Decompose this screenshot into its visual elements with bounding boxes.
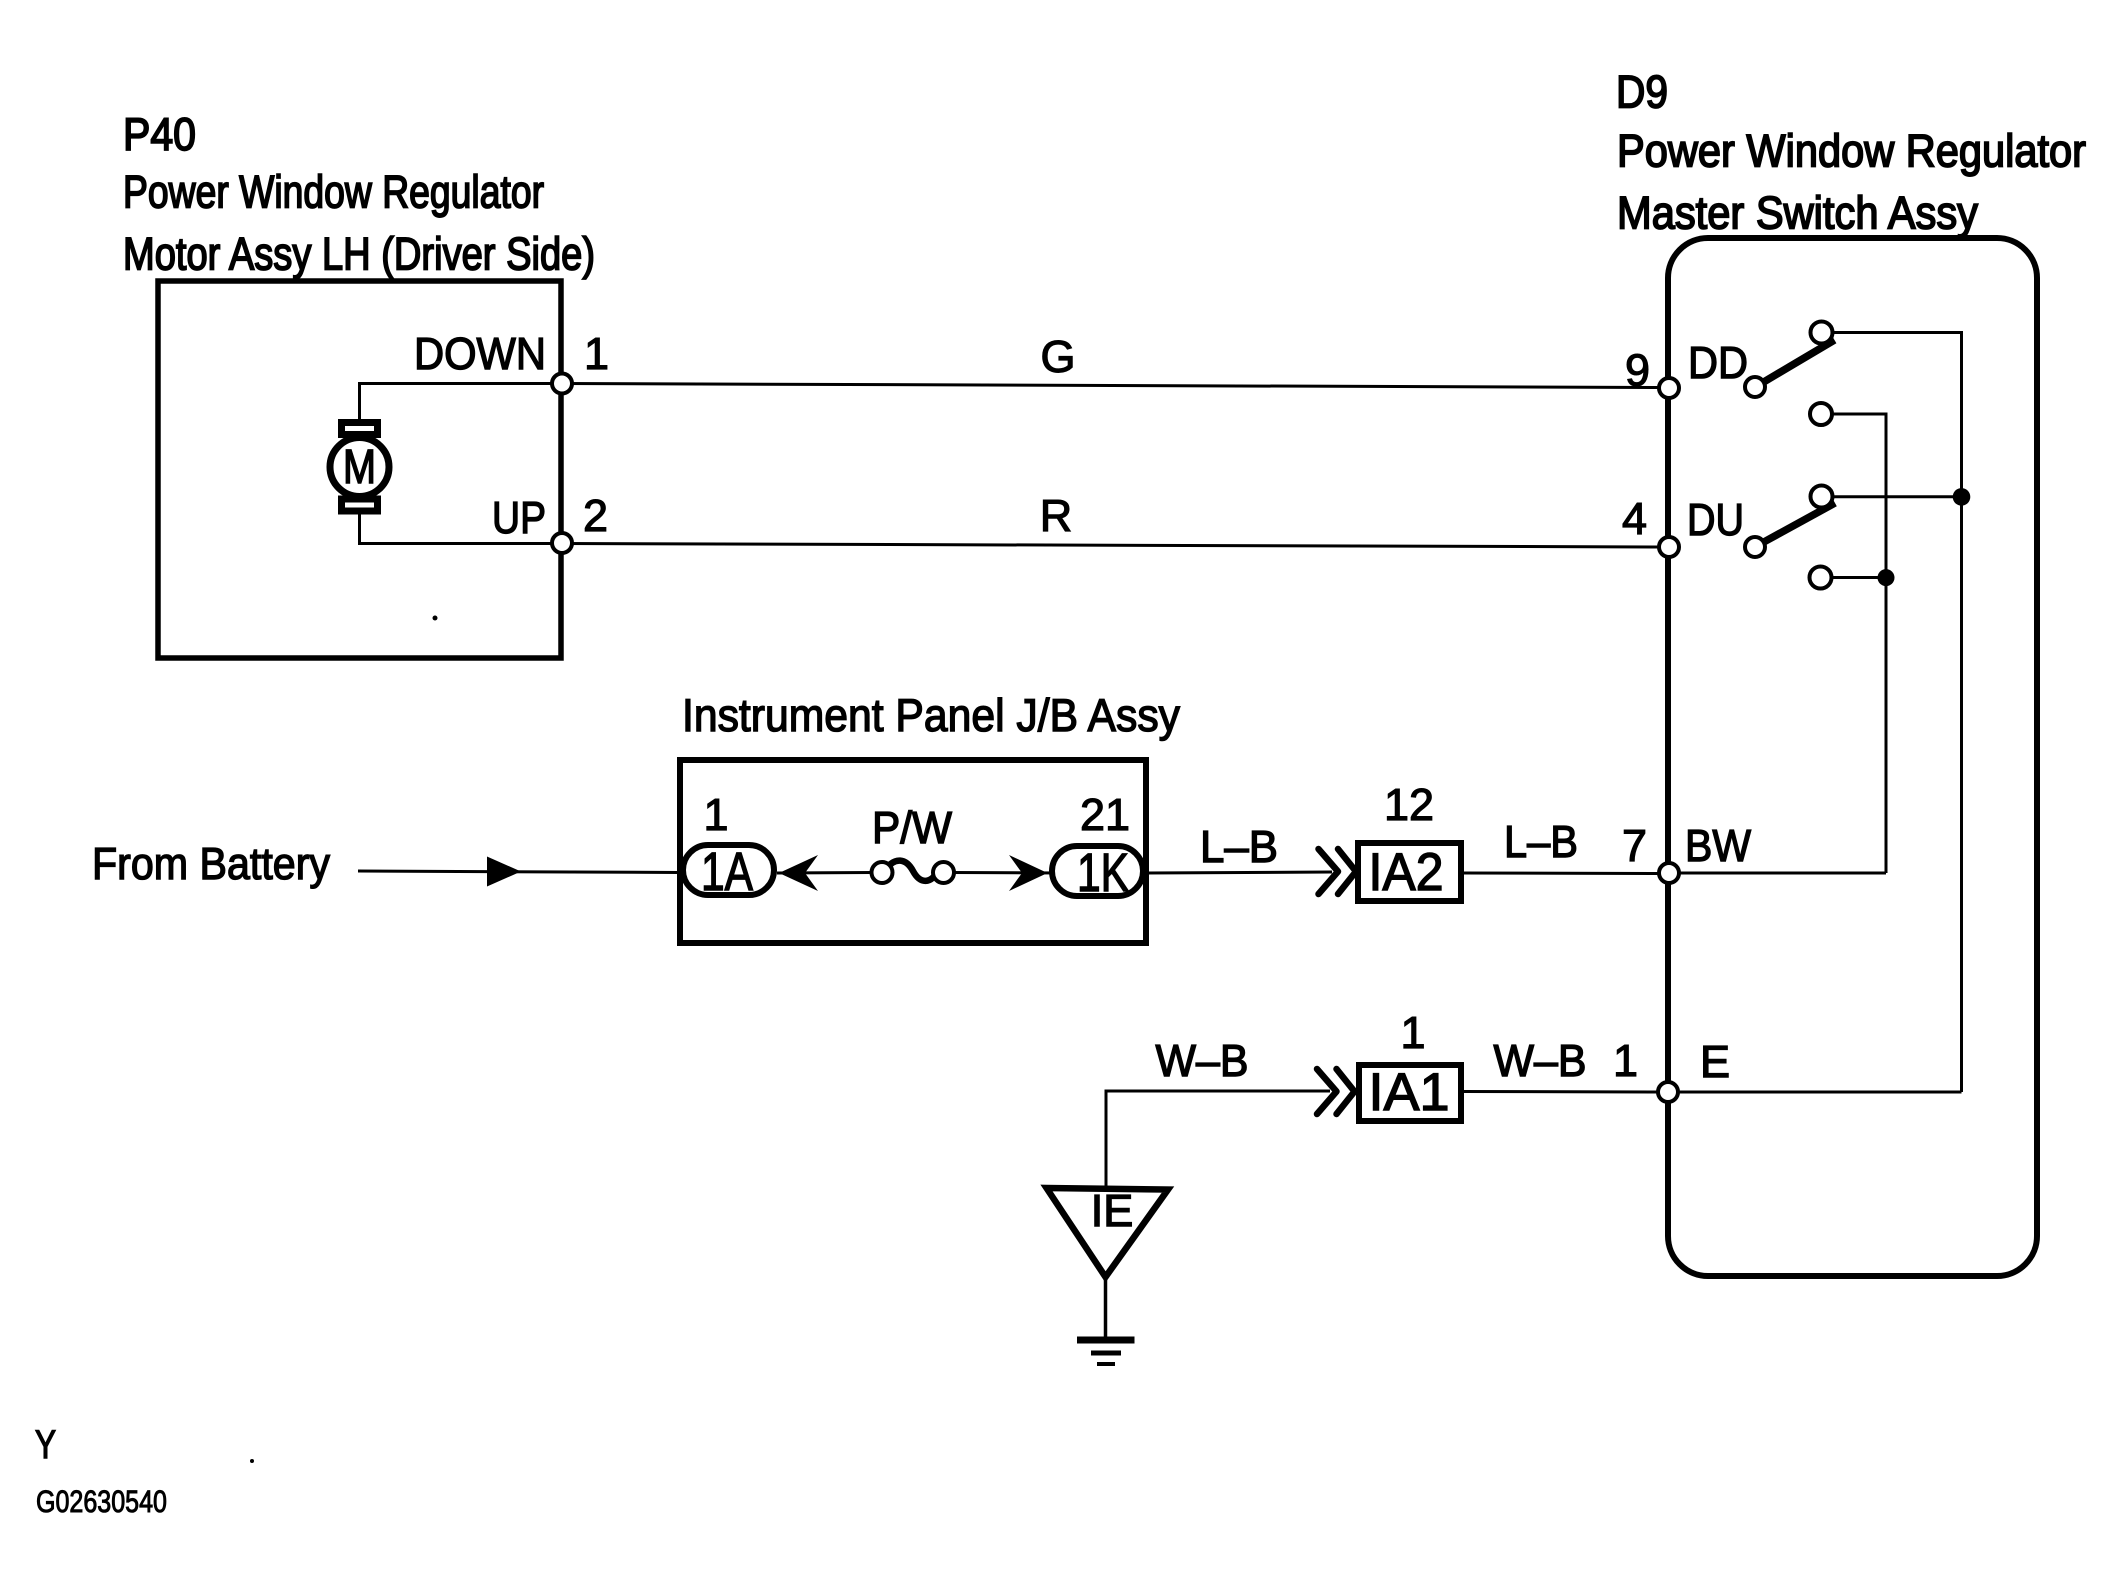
switch DD common contact (1745, 377, 1765, 397)
pin 2 connector node (552, 533, 572, 553)
switch DU common contact (1745, 537, 1765, 557)
svg-text:R: R (1040, 490, 1073, 541)
svg-text:G: G (1040, 331, 1075, 382)
pin 9 connector node (1659, 378, 1679, 398)
wire lower contact to bus B junction (1829, 576, 1886, 579)
wire E inside box (1668, 1091, 1962, 1094)
ground bars (1077, 1337, 1135, 1344)
switch DD arm (1762, 340, 1835, 383)
switch DU throw contact (1811, 486, 1833, 508)
pin 7 connector node (1659, 863, 1679, 883)
title P40 Power Window Regulator Motor Assy LH (Driver Side) (123, 108, 595, 280)
ground point IE triangle (1047, 1188, 1169, 1277)
svg-text:IE: IE (1091, 1185, 1134, 1236)
svg-text:7: 7 (1622, 820, 1647, 871)
svg-text:Instrument Panel J/B Assy: Instrument Panel J/B Assy (682, 689, 1180, 741)
connector IA1 (1359, 1065, 1461, 1121)
svg-text:1: 1 (1400, 1007, 1425, 1058)
wire DOWN from motor to pin 1 (360, 384, 563, 426)
fuse symbol (886, 861, 939, 881)
svg-text:IA1: IA1 (1369, 1063, 1450, 1122)
motor assy box P40 (158, 281, 561, 658)
svg-text:E: E (1700, 1036, 1730, 1087)
svg-text:P/W: P/W (872, 802, 952, 853)
wire R (562, 544, 1668, 548)
svg-text:W–B: W–B (1156, 1035, 1249, 1086)
connector 1A (683, 845, 774, 895)
svg-text:Y: Y (35, 1423, 56, 1467)
svg-text:1K: 1K (1077, 843, 1129, 903)
svg-text:12: 12 (1384, 779, 1434, 830)
wire from DD top contact to vertical bus A (1830, 333, 1962, 1093)
junction block box (680, 760, 1146, 943)
svg-text:1: 1 (703, 789, 728, 840)
svg-text:W–B: W–B (1494, 1035, 1587, 1086)
wire from mid contact to vertical bus B (1830, 414, 1886, 873)
pin 1 connector node (552, 374, 572, 394)
svg-text:UP: UP (492, 492, 546, 543)
title D9 Power Window Regulator Master Switch Assy (1616, 66, 2086, 239)
ground stem (1104, 1277, 1108, 1340)
wire W-B from IA1 to pin 1 E (1464, 1090, 1657, 1094)
svg-text:1A: 1A (701, 842, 753, 902)
mid contact circle (1810, 403, 1832, 425)
wire DU top contact to bus A junction (1830, 495, 1962, 498)
wire BW inside box (1669, 872, 1886, 875)
lower contact circle (1810, 567, 1832, 589)
wire through junction block (777, 871, 873, 875)
svg-text:IA2: IA2 (1369, 843, 1444, 902)
wire L-B from junction block to IA2 (1147, 872, 1332, 873)
svg-text:21: 21 (1080, 789, 1130, 840)
connector 1K (1052, 846, 1143, 896)
svg-text:1: 1 (584, 328, 609, 379)
pin 1 (E) connector node (1658, 1082, 1678, 1102)
speck (433, 616, 438, 621)
svg-text:2: 2 (583, 490, 608, 541)
svg-text:L–B: L–B (1504, 816, 1578, 867)
wire G (562, 384, 1668, 388)
motor M1 circle (330, 438, 389, 497)
inline connector chevrons IA2 (1319, 849, 1339, 894)
wire UP from motor to pin 2 (360, 510, 563, 544)
svg-text:Power Window Regulator: Power Window Regulator (123, 166, 544, 218)
wire L-B from IA2 to pin 7 (1464, 872, 1658, 876)
wire W-B from ground to IA1 (1106, 1091, 1330, 1186)
pin 4 connector node (1659, 537, 1679, 557)
svg-text:D9: D9 (1616, 66, 1668, 118)
svg-text:M: M (343, 441, 376, 494)
svg-text:G02630540: G02630540 (36, 1484, 167, 1519)
junction dot on bus A (1953, 488, 1971, 506)
svg-text:BW: BW (1685, 820, 1751, 871)
switch DD throw contact (1811, 322, 1833, 344)
female terminal arrow (left) (779, 855, 818, 891)
male terminal arrow (right) (1009, 855, 1048, 891)
svg-text:DOWN: DOWN (414, 328, 546, 379)
svg-text:9: 9 (1625, 345, 1650, 396)
svg-text:Master Switch Assy: Master Switch Assy (1617, 187, 1978, 239)
switch DU arm (1762, 503, 1835, 543)
svg-text:L–B: L–B (1200, 821, 1278, 872)
svg-text:P40: P40 (123, 108, 196, 160)
battery feed arrowhead (487, 857, 521, 887)
master switch box D9 (1668, 238, 2037, 1276)
inline connector chevrons IA1 (1317, 1069, 1337, 1114)
svg-text:DU: DU (1687, 494, 1744, 545)
motor M1 terminals (342, 423, 378, 435)
wire from battery (358, 871, 680, 873)
svg-text:1: 1 (1613, 1035, 1638, 1086)
svg-text:Power Window Regulator: Power Window Regulator (1617, 125, 2086, 177)
svg-text:4: 4 (1622, 493, 1647, 544)
connector IA2 (1358, 843, 1461, 901)
svg-text:Motor Assy LH (Driver Side): Motor Assy LH (Driver Side) (123, 228, 595, 280)
junction dot on bus B (1878, 569, 1895, 586)
svg-text:DD: DD (1688, 337, 1748, 388)
svg-text:From Battery: From Battery (92, 838, 330, 889)
